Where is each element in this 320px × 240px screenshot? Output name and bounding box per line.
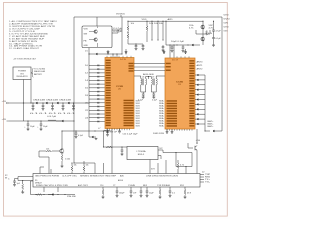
label C24 xyxy=(8,178,20,184)
net +5V label xyxy=(116,14,126,17)
svg-text:SENSE1 SENSE2 INIT TRKD RE: SENSE1 SENSE2 INIT TRKD REF xyxy=(80,175,116,177)
label C16 xyxy=(43,126,48,128)
wire x166 into U5 xyxy=(165,160,167,174)
capacitor C15 polarized xyxy=(24,120,29,130)
wire stub x163 xyxy=(162,21,163,41)
wire x158 into U5 xyxy=(157,129,159,174)
U1 part label xyxy=(116,86,124,91)
svg-text:OUT: OUT xyxy=(159,148,163,150)
wire left rail xyxy=(73,17,75,150)
svg-text:31: 31 xyxy=(178,84,181,86)
svg-text:5V0: 5V0 xyxy=(224,31,228,33)
svg-text:L6 4.7µH: L6 4.7µH xyxy=(113,31,123,33)
net labels between ICs xyxy=(136,100,164,128)
resistor R30 with ground xyxy=(159,187,162,199)
capacitors C13 C14 with ground xyxy=(212,21,215,47)
wire feedback loop xyxy=(176,153,192,167)
U3 bottom pin stubs xyxy=(167,129,192,131)
label T1 xyxy=(143,73,155,76)
svg-text:5V0: 5V0 xyxy=(224,19,230,21)
label +5V0 xyxy=(196,140,201,142)
wire bottom bus xyxy=(31,181,76,195)
svg-text:0.1µF: 0.1µF xyxy=(78,135,83,137)
U1 bottom pin stubs xyxy=(107,129,130,131)
U3 right pin name strip xyxy=(189,60,194,126)
wire link SDATA xyxy=(134,66,165,68)
wire y45 bus xyxy=(166,44,200,45)
svg-text:10µF: 10µF xyxy=(30,126,35,128)
wire right rail xyxy=(221,17,223,131)
svg-text:TX+: TX+ xyxy=(205,179,210,181)
svg-text:10k: 10k xyxy=(74,164,77,166)
svg-text:GND PWROUT3 PWRIN: GND PWROUT3 PWRIN xyxy=(35,175,59,177)
svg-text:1nF: 1nF xyxy=(133,193,136,195)
svg-text:IN: IN xyxy=(5,177,7,179)
svg-text:14: 14 xyxy=(85,80,88,82)
svg-text:SW: SW xyxy=(84,33,88,35)
capacitor C28 with ground xyxy=(146,187,154,197)
label L7 xyxy=(98,128,101,130)
labels right mid xyxy=(208,120,214,128)
wire left bus x89 xyxy=(88,48,90,134)
capacitor C20 with ground xyxy=(142,94,145,99)
resistor R23 xyxy=(177,160,179,174)
svg-text:TIP: TIP xyxy=(205,174,210,176)
wire x62 down xyxy=(61,131,62,150)
wire T1 centre taps xyxy=(146,76,152,79)
labels Q1 right xyxy=(209,25,214,30)
svg-text:BATTERY: BATTERY xyxy=(34,73,43,76)
capacitor bank with grounds xyxy=(32,102,76,110)
capacitor C26 with ground xyxy=(130,187,137,197)
wire U4 out to loop xyxy=(163,150,177,153)
wire Q1 Q2 link xyxy=(196,30,210,34)
wire x40 into U5 xyxy=(40,167,44,174)
IC U5 body xyxy=(33,174,200,188)
svg-text:LT1963A: LT1963A xyxy=(137,150,147,153)
ground arrow above U3 right xyxy=(184,45,187,54)
wire x203 drop xyxy=(202,21,203,45)
labels under U1 xyxy=(106,132,138,136)
svg-text:20: 20 xyxy=(118,89,121,91)
capacitor C8 with ground xyxy=(135,43,144,50)
wire stub x152 xyxy=(151,21,152,41)
svg-text:5V0: 5V0 xyxy=(224,23,229,25)
diode labels xyxy=(33,100,71,102)
diodes D6 D7 D8 D9 xyxy=(36,102,70,104)
resistor R27 to ground xyxy=(21,180,24,194)
svg-text:10µF 0.1µF: 10µF 0.1µF xyxy=(171,41,184,43)
U2 pin labels xyxy=(84,29,89,47)
wires to U3 top xyxy=(169,44,174,58)
svg-text:L5 4.7µH: L5 4.7µH xyxy=(113,28,123,30)
PS1 text xyxy=(17,71,29,79)
svg-text:100pF: 100pF xyxy=(119,193,124,195)
U1 top pin stubs xyxy=(107,56,131,58)
svg-text:0.1µF: 0.1µF xyxy=(152,99,157,101)
svg-text:10k: 10k xyxy=(131,23,135,25)
svg-text:3V3: 3V3 xyxy=(151,169,155,171)
svg-text:CLK LPF OSC: CLK LPF OSC xyxy=(62,175,78,177)
ground arrow under U1 xyxy=(118,129,121,134)
labels Q1 left xyxy=(189,25,194,30)
U3 left pin name strip xyxy=(166,63,177,127)
ground arrow under U3 b xyxy=(171,129,174,134)
U5 right pins with labels xyxy=(200,174,211,184)
label C15 xyxy=(30,126,35,128)
wire link CSn xyxy=(134,70,165,72)
svg-text:4.7µF: 4.7µF xyxy=(216,30,221,32)
ground arrow under U3 a xyxy=(166,129,169,134)
svg-text:L7: L7 xyxy=(98,128,101,130)
wire x95 into U5 xyxy=(94,163,96,174)
resistor R29 with ground xyxy=(102,187,105,199)
svg-text:L4 4.7µH: L4 4.7µH xyxy=(47,116,57,118)
diode D19 xyxy=(48,193,54,195)
svg-text:1N4148 1N4148 1N4148: 1N4148 1N4148 1N4148 xyxy=(33,100,71,102)
IC U1 body xyxy=(105,58,134,129)
wire PS1 down left xyxy=(23,80,24,122)
power supply box PS1 xyxy=(13,67,31,80)
capacitor C27 with ground xyxy=(140,187,143,197)
resistor R20 gate xyxy=(39,149,62,152)
svg-text:+5V0: +5V0 xyxy=(196,140,201,142)
svg-text:REGULATOR: REGULATOR xyxy=(17,75,29,78)
wire U2 outputs xyxy=(112,29,122,33)
wire U2 VIN to rail xyxy=(96,17,98,26)
svg-text:0.1µF: 0.1µF xyxy=(138,99,143,101)
sub-circuit box U2 xyxy=(82,26,112,48)
U2 internal transistors Q3 Q4 xyxy=(89,27,98,48)
capacitor C16 polarized xyxy=(37,120,42,130)
svg-text:ES5-5: ES5-5 xyxy=(138,154,145,156)
svg-text:4.7k: 4.7k xyxy=(189,27,194,29)
U3 top pin numbers xyxy=(172,60,178,62)
wire second rail VDD xyxy=(128,18,203,21)
svg-text:DC C9 CP: DC C9 CP xyxy=(106,132,117,134)
svg-text:49.9: 49.9 xyxy=(187,193,191,195)
notes list xyxy=(9,20,57,50)
wire x51 into U5 xyxy=(50,169,52,174)
wire +5V row xyxy=(8,102,90,103)
svg-text:5V0: 5V0 xyxy=(224,27,229,29)
labels near R23 xyxy=(151,165,184,171)
label C18 xyxy=(78,135,83,137)
transformer T1a xyxy=(140,78,142,80)
svg-text:RX1: RX1 xyxy=(180,185,184,187)
diode D17 to right rail xyxy=(204,130,222,132)
regulator U4 body xyxy=(127,147,158,160)
svg-text:REX: REX xyxy=(143,185,147,187)
wire +5V drop xyxy=(121,17,123,54)
U5 top pin labels xyxy=(35,174,178,177)
U4 right pin wires xyxy=(158,150,163,159)
IC U3 body xyxy=(165,58,195,129)
ground arrow above U1 right xyxy=(125,49,128,55)
label SGND xyxy=(153,133,164,135)
svg-text:5V0: 5V0 xyxy=(224,15,229,17)
label +5V electronics xyxy=(13,58,37,60)
resistor R25 xyxy=(83,161,85,174)
capacitor values xyxy=(30,113,76,115)
label R20 xyxy=(46,148,50,150)
labels C13 C14 xyxy=(216,30,221,40)
right margin net labels xyxy=(224,15,230,33)
labels C20 C21 xyxy=(138,99,157,101)
resistor values xyxy=(131,23,164,25)
svg-text:22: 22 xyxy=(85,110,88,112)
capacitor C10 with ground xyxy=(162,45,165,52)
resistor R13 xyxy=(146,21,148,42)
labels right of U3 top xyxy=(197,61,203,71)
svg-text:1.00k: 1.00k xyxy=(65,159,70,161)
svg-text:10k: 10k xyxy=(86,164,89,166)
resistor R24 xyxy=(71,162,73,173)
diode D1 row xyxy=(85,50,123,55)
svg-text:1µF: 1µF xyxy=(17,183,20,185)
capacitor C23 with ground xyxy=(121,146,124,155)
inductor L7 xyxy=(104,129,109,132)
capacitor C25 with ground xyxy=(116,187,125,197)
svg-text:LINE DRVD MONITR RCVDN: LINE DRVD MONITR RCVDN xyxy=(146,175,178,177)
U3 top pin stubs xyxy=(177,56,189,58)
U1 right pin name strip xyxy=(124,63,134,126)
capacitor C21 with ground xyxy=(152,94,155,99)
wire +9V row xyxy=(9,120,62,122)
svg-text:0.1µF: 0.1µF xyxy=(216,38,221,40)
wires U5 bottom left pins xyxy=(44,187,58,192)
diode D11 to ground xyxy=(89,134,98,140)
svg-text:0.1: 0.1 xyxy=(172,193,175,195)
svg-text:0.1 0.1 0.1 0.1 0.1: 0.1 0.1 0.1 0.1 0.1 xyxy=(30,113,76,115)
labels C11 C12 xyxy=(171,41,184,43)
label XTAL xyxy=(67,195,77,198)
svg-text:L8: L8 xyxy=(142,77,145,79)
diode array right column xyxy=(195,74,205,125)
page background xyxy=(0,0,230,219)
transistor Q1 xyxy=(201,25,205,29)
svg-text:4.7k: 4.7k xyxy=(208,33,212,35)
inductor L4 xyxy=(48,120,56,121)
svg-text:10k: 10k xyxy=(46,148,50,150)
wire gate loop to U5 xyxy=(39,151,49,174)
resistor R14 xyxy=(206,31,213,36)
wire left rail to gnd bus xyxy=(73,150,95,164)
diode D10 and wire to rail xyxy=(56,120,75,122)
resistor R22 xyxy=(106,146,113,148)
wire link SCLK xyxy=(134,63,165,65)
U5 inside labels xyxy=(35,179,123,184)
diode D5 xyxy=(192,44,194,46)
wires T1 bottoms xyxy=(141,92,156,94)
svg-text:C24 0.1µF 10µF: C24 0.1µF 10µF xyxy=(123,134,138,136)
svg-text:4.7k: 4.7k xyxy=(180,165,184,167)
svg-text:20: 20 xyxy=(85,102,88,104)
svg-text:10k 10k 10k: 10k 10k 10k xyxy=(149,23,163,25)
labels U5 left input xyxy=(5,175,9,180)
resistor R31 with ground xyxy=(184,187,192,199)
U5 bottom pin labels xyxy=(36,184,184,187)
transistor Q2 xyxy=(201,37,205,41)
diode D18 to ground xyxy=(106,129,109,137)
wire loop into U5 xyxy=(185,166,186,174)
svg-text:L9: L9 xyxy=(152,77,155,79)
svg-text:14 15: 14 15 xyxy=(120,59,126,61)
svg-text:10µF: 10µF xyxy=(43,126,48,128)
svg-text:10µF: 10µF xyxy=(149,193,154,195)
svg-text:SGND XVR0: SGND XVR0 xyxy=(153,133,164,135)
page border frame xyxy=(4,3,228,217)
wire right diode bus xyxy=(204,75,206,131)
U1 top pin numbers xyxy=(120,59,126,61)
U4 part label xyxy=(137,150,147,156)
capacitor C18 with ground xyxy=(75,131,78,138)
transistor Q7 and wire to U5 xyxy=(195,143,197,174)
transformer T1b xyxy=(151,79,152,85)
wire x103.5 down xyxy=(103,131,104,148)
svg-text:C16: C16 xyxy=(100,185,104,187)
label +9V xyxy=(2,119,10,121)
svg-text:+5V TO ELECTRONICS ONLY: +5V TO ELECTRONICS ONLY xyxy=(13,58,37,60)
wire x150 into U5 xyxy=(149,160,151,174)
labels L8 L9 xyxy=(142,77,155,79)
svg-text:12. OL ANTL DIAG PINOUT: 12. OL ANTL DIAG PINOUT xyxy=(9,47,40,50)
wire top +5V rail xyxy=(74,16,222,18)
wire x103.5 into U5 xyxy=(104,163,111,174)
label R21 xyxy=(65,159,70,161)
svg-text:24: 24 xyxy=(85,117,88,119)
wire U1 to U5 xyxy=(111,129,113,174)
ground arrow above U1 left xyxy=(107,50,110,55)
ground arrow above U3 left xyxy=(163,50,166,54)
svg-text:CT: CT xyxy=(113,185,116,187)
svg-text:10: 10 xyxy=(85,65,88,67)
svg-text:J2: J2 xyxy=(202,172,205,174)
pin numbers left column xyxy=(85,65,88,119)
labels R24 R25 xyxy=(62,131,89,166)
wires U1 top pin feeds xyxy=(112,53,117,57)
label J2 xyxy=(202,172,205,174)
wire PS1 down right xyxy=(30,73,33,104)
capacitor C24 with ground xyxy=(13,179,18,187)
label battery note xyxy=(32,68,46,77)
wires U5 left pins xyxy=(18,177,33,181)
transistor Q5 xyxy=(60,149,64,153)
svg-text:18: 18 xyxy=(85,95,88,97)
capacitor C12 with ground xyxy=(182,45,185,52)
svg-text:4.7k: 4.7k xyxy=(209,27,214,29)
svg-text:12: 12 xyxy=(85,72,88,74)
wire Q7 gate xyxy=(188,143,193,148)
labels L5 L6 xyxy=(113,28,123,33)
U3 part label xyxy=(176,82,184,87)
svg-text:D1: D1 xyxy=(85,50,88,52)
capacitor C7 with ground xyxy=(128,44,143,50)
label L4 xyxy=(47,116,57,118)
wire stub x158 xyxy=(157,21,158,41)
diode array left column xyxy=(89,64,105,122)
U1 left pin name strip xyxy=(106,60,111,126)
wire into U4 xyxy=(104,146,128,148)
capacitor C29 with ground xyxy=(169,187,176,197)
resistor R21 with ground xyxy=(61,153,64,168)
svg-text:SEALED LEAD: SEALED LEAD xyxy=(34,70,46,73)
resistors R11 R12 divider xyxy=(127,21,129,44)
resistor R28 xyxy=(37,194,43,196)
wire x197 down xyxy=(196,129,197,144)
wire x166 drop xyxy=(165,21,166,45)
wire y131 row xyxy=(61,130,112,131)
capacitor C11 with ground xyxy=(171,45,174,52)
svg-text:POWER: POWER xyxy=(18,71,27,73)
label +5V arrow xyxy=(2,101,9,104)
svg-text:16: 16 xyxy=(85,87,88,89)
label OUT xyxy=(159,148,163,150)
svg-text:16 17: 16 17 xyxy=(172,60,178,62)
